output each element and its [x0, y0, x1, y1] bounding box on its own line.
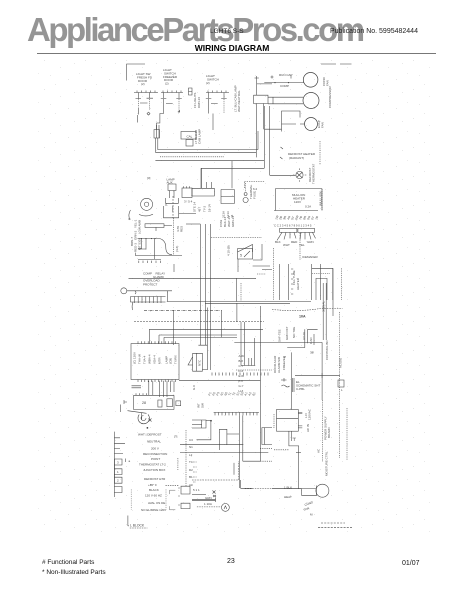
dashed drop from CN2 — [299, 233, 301, 260]
small contact — [293, 438, 296, 441]
svg-text:[3]: [3] — [147, 176, 151, 180]
wire into evap fan — [300, 123, 305, 125]
svg-text:B1: B1 — [189, 475, 193, 479]
svg-text:GRN-14: GRN-14 — [231, 216, 235, 227]
switch pin ticks — [137, 91, 226, 93]
svg-text:ALARM SW: ALARM SW — [277, 357, 281, 373]
wire rail under fresh food light switches — [134, 92, 229, 94]
svg-text:NEUTRAL: NEUTRAL — [147, 440, 161, 444]
wire bundle horizontal (upper) — [156, 138, 259, 152]
mullion heater box — [274, 189, 322, 211]
svg-text:HEATER: HEATER — [296, 277, 300, 290]
svg-text:D2: D2 — [189, 468, 193, 472]
triple verticals right — [323, 283, 326, 340]
defrost heater wire — [270, 174, 296, 176]
corner bracket top-left — [127, 64, 145, 81]
pin ticks between verticals — [291, 269, 293, 294]
left stub — [120, 405, 122, 413]
svg-text:JUNCTION BOX: JUNCTION BOX — [143, 468, 165, 472]
svg-text:TX/RX: TX/RX — [174, 355, 178, 364]
svg-text:C C 2 3 4 5 6 7 8 9 0 1 2 3 4: C C 2 3 4 5 6 7 8 9 0 1 2 3 4 5 — [274, 224, 312, 228]
svg-text:0.2A: 0.2A — [305, 205, 311, 209]
L BLOCK underline — [130, 527, 148, 529]
dashed vertical x340 — [339, 312, 341, 458]
NTC box left — [188, 353, 202, 371]
control board top pin ticks — [138, 341, 175, 343]
svg-text:VDA-4: VDA-4 — [153, 355, 157, 364]
dashed bracket left — [273, 414, 275, 428]
header publication number — [330, 28, 418, 35]
icemaker dashed cross — [312, 268, 342, 300]
dashed rail y321.4 — [134, 320, 264, 322]
motor underline arc — [139, 214, 153, 216]
wire into compressor top — [272, 488, 316, 490]
scan speckle — [36, 58, 436, 536]
dashed y485.7 — [166, 485, 179, 487]
left bracket ticks — [124, 400, 127, 404]
dashed drop from box — [172, 196, 174, 218]
resistor R1 leads — [156, 226, 172, 231]
footer page number — [227, 558, 235, 565]
icemaker verticals — [280, 264, 321, 300]
svg-text:N1: N1 — [189, 445, 193, 449]
vertical x322 down — [321, 342, 323, 400]
motor inner mark — [224, 506, 227, 509]
svg-text:ICEMAKER: ICEMAKER — [302, 255, 319, 259]
svg-text:BLACK: BLACK — [149, 488, 159, 492]
small box B — [167, 399, 173, 407]
svg-text:A-W: A-W — [239, 354, 245, 358]
svg-text:120 V 60 HZ: 120 V 60 HZ — [145, 494, 162, 498]
aux box right of motor — [164, 204, 179, 218]
small box top right — [338, 380, 344, 387]
dot terminal — [210, 420, 211, 421]
relay box row 2 — [134, 395, 174, 409]
right brackets spec — [170, 490, 176, 510]
long wire y444.7 — [180, 444, 243, 446]
svg-text:T4: T4 — [189, 460, 193, 464]
svg-text:BOARD: BOARD — [327, 426, 331, 438]
svg-text:28: 28 — [142, 401, 146, 405]
svg-text:1 BLK: 1 BLK — [284, 486, 292, 490]
light switch SW3 dashed leg — [223, 99, 225, 113]
wire y461.2 — [243, 460, 260, 462]
left edge tiny marks column — [193, 462, 197, 482]
thermal fuse loop — [244, 193, 247, 196]
svg-text:3 ! 5 4: 3 ! 5 4 — [184, 200, 193, 204]
double vertical x292.4 — [292, 378, 294, 392]
svg-text:WHT | DEFROST: WHT | DEFROST — [138, 433, 162, 437]
dashed y448 — [260, 447, 272, 449]
left bracket marks — [128, 210, 131, 220]
svg-text:NTC: NTC — [198, 359, 202, 366]
svg-text:SIGNAL: SIGNAL — [322, 301, 326, 312]
svg-text:(4-6): (4-6) — [175, 246, 179, 252]
svg-text:C-Y: C-Y — [239, 364, 244, 368]
dashed arrow y506.9 — [197, 506, 221, 508]
compressor motor wires — [268, 97, 303, 104]
title — [0, 43, 464, 53]
flag box diagonal — [244, 251, 250, 257]
svg-text:WHT: WHT — [283, 243, 290, 247]
right cells col2 — [178, 488, 180, 505]
svg-text:G 0: G 0 — [192, 385, 196, 390]
dashed drop to fuse — [244, 182, 264, 189]
dash-dot rail y310.3 — [144, 309, 222, 311]
svg-text:GUARD: GUARD — [153, 275, 165, 279]
flag drop wire — [238, 244, 272, 272]
left comb ticks — [114, 438, 125, 454]
lamp holder box — [154, 130, 160, 138]
svg-text:NO ELIMINE 120V: NO ELIMINE 120V — [141, 508, 166, 512]
svg-text:18-14: 18-14 — [208, 204, 212, 212]
svg-text:[?]: [?] — [174, 435, 178, 439]
dashed feed to compressor — [245, 488, 272, 490]
flag box — [238, 249, 253, 259]
run capacitor C1 plates — [254, 76, 273, 157]
flag triangle — [238, 245, 253, 253]
power box pin stubs — [298, 412, 302, 428]
short wire left — [132, 386, 142, 388]
footer left 1 — [42, 559, 94, 566]
bell x2 mark — [149, 419, 152, 422]
pins into relay box — [202, 168, 212, 188]
compressor relay box — [272, 97, 274, 104]
svg-text:POINT: POINT — [151, 457, 160, 461]
connector block CN1 — [280, 228, 297, 232]
evap motor circle — [222, 504, 230, 512]
long rail y301.5 — [167, 301, 311, 303]
svg-text:WBA-4: WBA-4 — [148, 354, 152, 364]
vertical pair mid — [202, 308, 207, 370]
rail junction dots — [141, 238, 142, 239]
svg-text:COMP: COMP — [280, 84, 289, 88]
crossing verticals center — [237, 303, 261, 461]
svg-text:F-X: F-X — [239, 379, 244, 383]
svg-text:(2): (2) — [141, 82, 145, 86]
light switch SW2 body — [157, 93, 182, 130]
rail y238.6 — [138, 238, 161, 240]
thermal fuse loop lower — [243, 197, 248, 202]
rail pins down L — [138, 239, 172, 259]
rail y303.3 — [205, 302, 290, 304]
wire to condenser fan — [264, 76, 304, 83]
compressor circle bottom — [316, 484, 329, 497]
dashed drop x177.9 — [177, 458, 179, 470]
svg-text:G-Y: G-Y — [239, 384, 244, 388]
right box (261.9,427.6) — [262, 428, 272, 445]
svg-text:AC IN: AC IN — [306, 424, 310, 432]
vertical x234 — [233, 463, 235, 475]
defrost marks — [280, 147, 283, 159]
connector block CN2 — [298, 228, 315, 232]
svg-text:ORN-16: ORN-16 — [197, 97, 201, 108]
staircase wires — [197, 421, 240, 450]
svg-text:LOW AMB: LOW AMB — [138, 220, 142, 234]
three long vertical rails — [198, 224, 210, 370]
right small cells — [181, 486, 190, 508]
svg-text:200 V: 200 V — [151, 446, 159, 450]
swoop wire bundle right — [272, 309, 343, 311]
svg-text:HEAT: HEAT — [284, 495, 292, 499]
dashed y370 — [236, 369, 272, 371]
bell inner — [141, 413, 146, 421]
title rule — [37, 53, 436, 54]
top distribution box 2 — [186, 140, 193, 147]
below-box wires — [289, 431, 299, 488]
rail y168 — [201, 161, 264, 189]
svg-text:5 1 1: 5 1 1 — [193, 488, 200, 492]
svg-text:1 10A: 1 10A — [204, 502, 212, 506]
svg-text:(2): (2) — [165, 82, 169, 86]
wire bundle dotted line — [160, 156, 224, 158]
fuse stub dashed — [245, 183, 247, 192]
header model number — [210, 28, 244, 35]
wire y424.5 — [192, 424, 202, 426]
wire from box w/ dot — [206, 420, 211, 422]
comb small y358-365 — [241, 322, 255, 366]
dashed vertical x241 — [240, 283, 242, 301]
connector row y259.6 — [138, 259, 161, 261]
svg-text:WHT-NEUTRAL: WHT-NEUTRAL — [237, 90, 241, 112]
long dashed y480 — [192, 461, 239, 480]
evaporator fan wire box — [265, 111, 300, 132]
svg-text:10A: 10A — [299, 315, 306, 319]
svg-text:GRN: GRN — [205, 496, 212, 500]
svg-text:L BLOCK: L BLOCK — [130, 524, 145, 528]
svg-text:BLK: BLK — [275, 240, 281, 244]
dashed y488.6 — [272, 488, 302, 490]
svg-text:FAN: FAN — [321, 122, 325, 128]
svg-text:RES: RES — [180, 226, 184, 232]
small box A — [158, 400, 162, 407]
svg-text:KIT 5303: KIT 5303 — [138, 238, 142, 250]
power box mid line — [277, 417, 299, 419]
resistor R1 body — [145, 224, 164, 228]
svg-text:OAD: OAD — [309, 337, 313, 344]
svg-text:CAB LAMP: CAB LAMP — [198, 129, 202, 144]
comb row y412 — [214, 412, 259, 415]
compressor motor circle — [303, 93, 319, 109]
dashed rail y329.3 + drop — [149, 310, 263, 343]
relay board box K1 — [184, 186, 215, 196]
svg-text:4 10 (B): 4 10 (B) — [227, 245, 231, 256]
mullion box inner dashes — [321, 189, 323, 210]
footer left 2 — [42, 569, 106, 576]
rail y337.4 — [164, 337, 237, 343]
svg-text:B-X: B-X — [239, 359, 244, 363]
svg-text:AC/SIG: AC/SIG — [339, 357, 343, 368]
wire y347.6 — [287, 329, 305, 347]
dashed vertical x322.9 — [322, 400, 347, 462]
dashed y461 right — [260, 460, 272, 462]
wire into compressor bottom — [301, 489, 316, 496]
left dashed vertical x273.7 — [273, 248, 275, 300]
svg-text:FAN: FAN — [326, 80, 330, 86]
svg-text:FUSE: FUSE — [253, 191, 257, 199]
svg-text:RECONNECTION: RECONNECTION — [143, 452, 167, 456]
stub v174 — [173, 264, 175, 272]
small circle terminal — [121, 288, 127, 294]
spec box dashed border — [131, 489, 166, 509]
svg-text:D-Z: D-Z — [239, 369, 244, 373]
icemaker U wire — [316, 278, 327, 300]
long wire y452.6 — [180, 452, 268, 454]
svg-text:CONTROL BD: CONTROL BD — [325, 340, 329, 360]
overload box — [308, 329, 318, 345]
svg-text:RED: RED — [291, 240, 298, 244]
pin row ticks y374 — [212, 373, 268, 376]
dashed rail y237.4 — [211, 236, 262, 238]
thermostat hatch — [293, 168, 306, 181]
pins top of box2 — [149, 381, 174, 397]
svg-text:MTR: MTR — [158, 357, 162, 364]
svg-text:(C) 120V: (C) 120V — [133, 352, 137, 364]
svg-text:THERMOSTAT LT-2: THERMOSTAT LT-2 — [139, 462, 166, 466]
svg-text:A0: A0 — [189, 483, 193, 487]
svg-text:TY-2: TY-2 — [203, 205, 207, 212]
thermometer symbol — [213, 491, 217, 498]
footer date — [402, 560, 420, 567]
fan motor M1 inner — [144, 202, 148, 206]
relay sub box — [221, 190, 234, 204]
bottom long rail y380.5 — [179, 380, 260, 382]
svg-text:3134: 3134 — [222, 211, 226, 218]
right edge connector marks — [189, 88, 193, 95]
svg-text:C-PBL: C-PBL — [296, 387, 305, 391]
long vertical rails right of caps — [264, 106, 269, 175]
vertical pair x239/x243 — [239, 415, 243, 488]
svg-text:SW: SW — [201, 403, 205, 408]
compressor chord — [315, 486, 317, 497]
wire diag to bell — [128, 411, 147, 414]
connector block y296-302 — [131, 297, 166, 311]
dashed y449.8 — [274, 449, 289, 451]
top distribution box — [181, 132, 196, 140]
rail y224 feed — [186, 223, 200, 225]
dashed rail right of resistor — [172, 218, 174, 255]
svg-text:RUN CAP: RUN CAP — [279, 73, 293, 77]
icemaker cross wires — [312, 268, 333, 300]
wire y494.5 — [192, 494, 206, 496]
connector pins y262 — [139, 261, 161, 263]
hook x240.7 — [241, 480, 253, 488]
svg-text:TVA-4: TVA-4 — [143, 355, 147, 364]
small box upper right — [182, 188, 192, 198]
svg-text:CAL: CAL — [187, 135, 193, 139]
L BLOCK corner — [128, 516, 129, 526]
left comb vertical — [113, 432, 115, 497]
svg-text:120V: 120V — [294, 200, 301, 204]
svg-text:+85° F: +85° F — [148, 483, 157, 487]
svg-text:GRD CKT: GRD CKT — [285, 326, 289, 340]
condenser fan motor circle — [303, 73, 318, 88]
box2 top pin ticks — [136, 393, 147, 395]
dashes near flag — [257, 273, 266, 275]
svg-text:S: S — [283, 356, 287, 358]
svg-text:THERMOSTAT: THERMOSTAT — [312, 164, 316, 184]
svg-text:(RADIANT): (RADIANT) — [289, 156, 304, 160]
light switch SW3 body — [206, 93, 227, 131]
defrost thermostat symbol — [296, 171, 303, 178]
svg-text:STE 14: STE 14 — [193, 202, 197, 212]
svg-text:BRN-7: BRN-7 — [130, 237, 134, 246]
svg-text:(MULLION): (MULLION) — [319, 191, 323, 206]
svg-text:PROTECT: PROTECT — [143, 283, 158, 287]
svg-text:C3: C3 — [189, 438, 193, 442]
bottom right dashes — [318, 523, 352, 527]
corner bracket top-right (dashed) — [321, 63, 352, 65]
svg-text:COMPRESSOR: COMPRESSOR — [328, 85, 332, 108]
power supply board box — [277, 410, 299, 432]
svg-text:UT OL: UT OL — [302, 331, 306, 340]
svg-text:(2): (2) — [206, 81, 210, 85]
alarm bell arc — [138, 414, 149, 423]
vertical from rail y278 — [236, 278, 238, 301]
fan motor M1 circle — [141, 198, 153, 210]
watermark — [27, 11, 464, 49]
wire pair down to lamp — [157, 125, 160, 138]
svg-text:6.2: 6.2 — [253, 187, 258, 191]
long rail y278.3 — [129, 277, 257, 279]
svg-text:YEL: YEL — [299, 243, 305, 247]
vertical x333 — [332, 268, 334, 316]
tick y452.4 — [296, 451, 301, 453]
svg-text:38!: 38! — [310, 351, 314, 355]
fanout wires from connectors — [277, 232, 316, 240]
wire junction dots — [274, 82, 275, 83]
svg-text:E-W: E-W — [239, 374, 245, 378]
bracket top right of comb — [125, 459, 127, 463]
left comb cells — [114, 459, 122, 493]
svg-text:L2: L2 — [189, 453, 193, 457]
wire from aux box — [179, 213, 196, 215]
vertical from y310 — [172, 310, 174, 345]
wire y290.6 — [127, 291, 172, 302]
rail y342.4 right — [234, 341, 322, 343]
svg-text:5: 5 — [240, 254, 242, 258]
control board box — [131, 344, 179, 380]
light switch SW1 body — [136, 93, 154, 123]
small box C — [176, 401, 181, 406]
door switch symbol — [281, 378, 290, 387]
svg-text:NO TRE: NO TRE — [292, 327, 296, 338]
svg-text:120VAC: 120VAC — [308, 408, 312, 420]
wire y375.7 — [295, 373, 340, 378]
right cells column — [185, 430, 187, 487]
small box with divider — [192, 420, 206, 428]
small hook mark — [135, 291, 136, 294]
lamp socket box — [166, 184, 179, 203]
svg-text:GRN: GRN — [307, 240, 314, 244]
vertical x291.4 — [290, 352, 292, 409]
svg-text:SAF-TEE: SAF-TEE — [278, 329, 282, 342]
bell dot — [147, 427, 148, 428]
svg-text:THA-W: THA-W — [138, 354, 142, 364]
light switch SW2 dashed leg — [178, 99, 180, 113]
control board bottom pin ticks — [138, 380, 175, 383]
defrost dashed drop — [319, 141, 321, 165]
wire bundle long line — [155, 131, 264, 161]
double wire y499.5 — [192, 498, 216, 503]
junction diamond — [147, 112, 150, 115]
evaporator fan motor circle — [305, 118, 318, 131]
svg-text:AVAL OS DE: AVAL OS DE — [148, 501, 165, 505]
svg-text:DEFROST HTR: DEFROST HTR — [144, 477, 166, 481]
light switch SW1 dashed legs — [139, 99, 150, 110]
svg-text:MOISTURE CTRL: MOISTURE CTRL — [325, 451, 329, 476]
rail y255.5 — [135, 253, 182, 256]
